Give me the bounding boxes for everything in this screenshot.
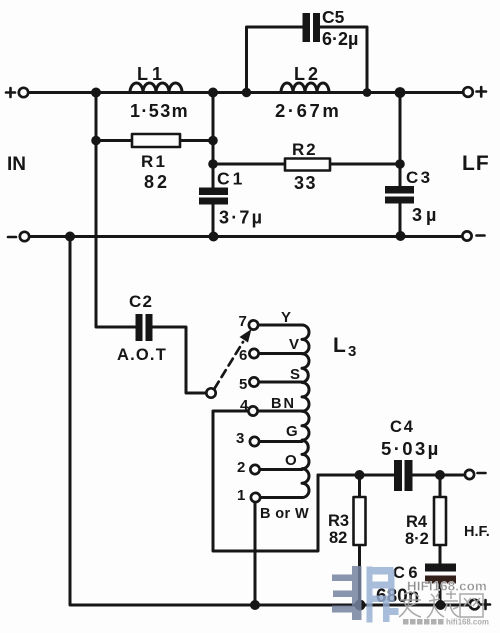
svg-text:82: 82: [329, 529, 347, 547]
pin 5 contact: [249, 377, 258, 386]
svg-text:C1: C1: [217, 169, 245, 189]
svg-text:7: 7: [239, 313, 247, 330]
svg-text:3: 3: [348, 343, 356, 360]
svg-text:C2: C2: [129, 292, 153, 311]
svg-text:3: 3: [236, 430, 244, 447]
watermark outlined character SHAO: [427, 591, 459, 618]
wire R4 top lead: [439, 475, 442, 497]
svg-text:BN: BN: [271, 396, 296, 412]
node bottom rail / R3 bottom: [355, 600, 366, 611]
wire tap2 to L3: [260, 468, 303, 471]
node top rail / R1-C2 column: [91, 88, 101, 98]
wire R4 to C6 lead: [439, 545, 442, 564]
terminal LF minus: [462, 231, 471, 240]
node top rail / C5 right: [363, 88, 372, 97]
svg-text:R4: R4: [406, 513, 428, 531]
resistor R3 body: [354, 497, 366, 545]
svg-text:V: V: [289, 336, 299, 353]
wire C5 left branch: [247, 27, 304, 93]
wire C6 bottom lead: [439, 584, 442, 605]
capacitor C5 plates: [303, 13, 311, 42]
node bottom rail / tap1: [250, 600, 260, 610]
svg-text:82: 82: [144, 172, 170, 192]
svg-text:2: 2: [237, 459, 245, 476]
node minus rail / C1 bottom: [209, 232, 219, 242]
capacitor C4 plates: [394, 460, 402, 491]
node R2 left / C1 top: [208, 159, 218, 169]
svg-text:R1: R1: [141, 152, 167, 171]
wire C5 right branch: [320, 27, 368, 93]
svg-text:S: S: [290, 366, 300, 383]
wire tap7 to L3: [259, 324, 303, 327]
wire tap1 to L3: [260, 496, 302, 499]
terminal IN plus: [19, 88, 28, 97]
svg-text:A.O.T: A.O.T: [117, 346, 167, 364]
svg-text:2·67m: 2·67m: [275, 100, 341, 121]
wire top rail from IN+ to LF+: [29, 91, 464, 94]
svg-text:8·2: 8·2: [405, 530, 429, 548]
svg-text:LF: LF: [462, 152, 490, 175]
inductor L1: [130, 83, 182, 93]
wire R3 bottom lead: [358, 545, 361, 605]
svg-text:3µ: 3µ: [412, 205, 440, 225]
wire vertical x=400 lower from C3: [399, 204, 402, 237]
wire vertical node B column x=213 upper: [212, 93, 215, 188]
wire tap4 branch down and across to HF rail: [213, 411, 318, 551]
node minus rail / left return: [65, 232, 75, 242]
capacitor C3 plates: [385, 186, 414, 194]
wire vertical x=400 upper to C3: [399, 93, 402, 187]
watermark outlined character FA: [399, 592, 421, 617]
svg-text:5: 5: [239, 376, 247, 393]
pin 1 contact: [251, 493, 260, 502]
wire HF top rail left of C4: [318, 474, 394, 477]
wire R1 row left: [96, 139, 132, 142]
svg-text:C3: C3: [406, 168, 433, 187]
svg-text:6: 6: [239, 347, 247, 364]
svg-text:Y: Y: [281, 309, 291, 326]
wire R3 top lead: [358, 475, 361, 497]
svg-text:HIFI168.com: HIFI168.com: [407, 579, 487, 594]
svg-text:6·2µ: 6·2µ: [322, 29, 358, 49]
polarity sign IN minus: [8, 236, 16, 239]
terminal HF minus: [465, 470, 474, 479]
wire vertical from top rail down to C2 row: [96, 93, 135, 328]
node bottom rail / C6 bottom: [436, 600, 446, 610]
svg-text:G: G: [286, 423, 298, 440]
switch S1 wiper arrowhead: [240, 329, 252, 343]
wire tap6 to L3: [259, 352, 303, 355]
pin 7 contact: [249, 320, 258, 329]
inductor L3 tapped coil: [302, 325, 309, 498]
wire minus rail from IN- to LF-: [29, 235, 463, 238]
wire R2 row left: [213, 163, 285, 166]
node top rail / L1 right column: [208, 88, 218, 98]
svg-text:O: O: [285, 452, 297, 469]
svg-text:1: 1: [237, 487, 245, 504]
polarity sign HF plus: [481, 600, 490, 609]
svg-text:33: 33: [294, 173, 317, 193]
capacitor C6 plates: [425, 564, 456, 572]
node HF rail / R3 top: [355, 470, 365, 480]
svg-text:hifi168.com: hifi168.com: [446, 618, 489, 627]
polarity sign HF minus: [478, 472, 486, 475]
wire tap1 down to bottom rail: [254, 502, 257, 605]
svg-text:IN: IN: [7, 154, 26, 175]
wire vertical node B column x=213 lower: [212, 205, 215, 237]
svg-text:L2: L2: [294, 64, 321, 84]
polarity sign IN plus: [6, 88, 15, 97]
wire R2 row right: [330, 163, 400, 166]
svg-text:4: 4: [240, 397, 249, 414]
node top rail / C5 left: [242, 88, 251, 97]
wire tap5 to L3: [259, 381, 303, 384]
switch S1 dashed wiper: [215, 342, 244, 389]
polarity sign LF plus: [477, 87, 487, 97]
svg-text:C5: C5: [322, 7, 345, 27]
node top rail / C3 column: [395, 87, 406, 98]
inductor L2: [281, 83, 329, 93]
node R1 left: [91, 136, 101, 146]
watermark logo light glyph: [367, 567, 373, 623]
wire left return x=70 down and bottom rail to HF+: [70, 237, 470, 606]
svg-text:C4: C4: [390, 418, 415, 436]
terminal HF plus: [470, 600, 480, 610]
pin 6 contact: [249, 349, 258, 358]
switch common contact: [206, 388, 215, 397]
pin 3 contact: [250, 437, 259, 446]
polarity sign LF minus: [477, 234, 485, 237]
resistor R4 body: [434, 497, 446, 545]
svg-text:H.F.: H.F.: [464, 524, 490, 540]
svg-text:5·03µ: 5·03µ: [381, 438, 441, 459]
watermark outlined character WANG: [460, 594, 483, 617]
pin 4 contact: [248, 406, 257, 415]
wire R1 row right: [180, 139, 213, 142]
capacitor C1 plates: [199, 188, 228, 196]
resistor R1 body: [132, 134, 180, 147]
terminal LF plus: [463, 87, 473, 97]
wire HF top rail right of C4: [413, 474, 463, 477]
svg-text:3·7µ: 3·7µ: [219, 208, 264, 228]
pin 2 contact: [250, 465, 259, 474]
svg-text:B or W: B or W: [260, 506, 309, 522]
capacitor C2 plates: [136, 314, 143, 341]
wire tap3 to L3: [260, 440, 303, 443]
node R2 right / C3 top: [395, 159, 405, 169]
node minus rail / C3 bottom: [396, 231, 406, 241]
watermark logo dark glyph: [352, 566, 362, 620]
terminal IN minus: [20, 232, 29, 241]
wire C2 output to switch common: [152, 327, 206, 393]
resistor R2 body: [285, 159, 330, 171]
wire tap4 to L3: [258, 410, 303, 413]
node HF rail / R4 top: [435, 470, 445, 480]
svg-text:R2: R2: [292, 140, 317, 159]
watermark small byline: [403, 619, 409, 625]
svg-text:L: L: [333, 334, 346, 357]
svg-text:L1: L1: [137, 64, 166, 84]
node R1 right: [208, 136, 218, 146]
svg-text:1·53m: 1·53m: [130, 101, 189, 121]
svg-text:R3: R3: [328, 512, 349, 530]
